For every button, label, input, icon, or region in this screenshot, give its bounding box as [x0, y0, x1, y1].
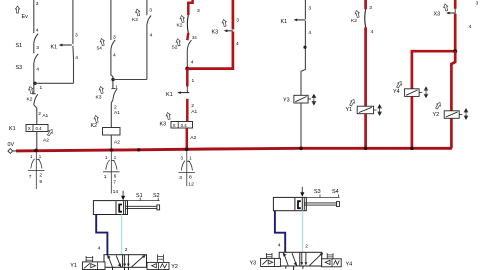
- svg-text:34: 34: [192, 35, 197, 40]
- wire: [36, 132, 38, 151]
- svg-text:Ev: Ev: [22, 14, 29, 20]
- wire red to rail corner: [450, 118, 453, 148]
- valve solenoid Y4: [405, 89, 420, 97]
- svg-text:Y2: Y2: [433, 112, 440, 118]
- tube cyan cylinder1 to valve1: [121, 215, 123, 256]
- cylinder 2 position ruler: [306, 196, 339, 198]
- junction column 9: [453, 49, 457, 53]
- wire column 4 top energized: [188, 0, 192, 15]
- cylinder 1 piston: [115, 201, 117, 214]
- svg-text:8: 8: [189, 174, 192, 180]
- svg-text:4: 4: [469, 24, 472, 30]
- svg-text:1: 1: [39, 154, 42, 159]
- valve V2 body: [279, 252, 322, 266]
- svg-text:4: 4: [371, 29, 374, 35]
- node junction 1: [33, 82, 36, 85]
- node junction 2: [111, 78, 114, 81]
- svg-text:0V: 0V: [8, 142, 15, 148]
- svg-text:K2: K2: [27, 97, 33, 103]
- junction on rail K1: [34, 149, 38, 153]
- svg-text:S3: S3: [16, 65, 23, 71]
- junction on rail K2: [110, 148, 114, 152]
- wire red: [186, 69, 189, 87]
- wire: [146, 25, 148, 80]
- svg-text:0.4: 0.4: [181, 123, 188, 128]
- svg-text:1: 1: [40, 85, 43, 91]
- valve solenoid Y2: [444, 111, 459, 119]
- svg-text:14: 14: [113, 189, 119, 195]
- junction on rail K3: [185, 148, 189, 152]
- valve V2 manual override right: [326, 253, 328, 259]
- svg-text:A2: A2: [190, 135, 196, 141]
- svg-text:K2: K2: [177, 23, 183, 29]
- cylinder 2 piston rod: [304, 202, 336, 204]
- valve V1 body: [104, 255, 147, 268]
- svg-text:2: 2: [125, 247, 128, 253]
- wire red elbow to junction col4: [187, 32, 233, 69]
- svg-text:4: 4: [191, 60, 194, 66]
- svg-text:K3: K3: [160, 122, 167, 128]
- svg-text:Y3: Y3: [283, 97, 290, 103]
- wire column 1: [33, 0, 35, 33]
- wire column 3: [110, 0, 112, 40]
- contact mirror table K2: [103, 151, 120, 194]
- contact K1 closed: [61, 44, 72, 46]
- svg-text:3: 3: [181, 156, 184, 161]
- svg-text:4: 4: [308, 30, 311, 36]
- svg-text:K1: K1: [166, 92, 173, 98]
- valve V1 manual override right: [157, 254, 159, 261]
- tube cyan cylinder2 to valve2: [302, 211, 304, 253]
- svg-text:2: 2: [38, 111, 41, 117]
- svg-text:0.4: 0.4: [36, 126, 43, 131]
- svg-text:Y4: Y4: [393, 89, 400, 95]
- node on column 6: [303, 46, 306, 49]
- wire: [110, 135, 112, 150]
- svg-text:2: 2: [39, 172, 42, 178]
- valve V1 port stubs: [112, 267, 114, 270]
- contact K2 latch: [147, 16, 151, 26]
- svg-text:7: 7: [29, 174, 32, 180]
- svg-text:1: 1: [189, 156, 192, 161]
- contact K1 closed: [295, 19, 305, 21]
- contact mirror table K1: [28, 152, 45, 190]
- wire column 9 Y2 energized: [454, 0, 457, 9]
- wire red jog: [451, 51, 455, 111]
- cylinder 2 piston: [294, 198, 296, 210]
- contact S1: [34, 34, 38, 44]
- relay coil K3 timer: [171, 122, 193, 129]
- valve V2 right box arrows: [301, 253, 303, 263]
- wire red: [454, 14, 457, 51]
- svg-text:K1: K1: [281, 19, 288, 25]
- wire red: [411, 96, 414, 148]
- contact Ev: [15, 6, 19, 13]
- contact K2 closed: [186, 15, 189, 33]
- svg-text:Y3: Y3: [250, 260, 257, 266]
- contact K3 closed: [226, 30, 233, 32]
- wire column 8 Y4 energized: [412, 51, 455, 89]
- wire latch branch 2: [113, 79, 147, 81]
- valve V1 pilot solenoid Y1: [82, 262, 105, 270]
- wire: [33, 43, 35, 53]
- relay coil K2: [103, 128, 121, 136]
- svg-text:2: 2: [305, 243, 308, 249]
- svg-text:9: 9: [39, 179, 42, 185]
- junction on rail x139: [137, 148, 140, 151]
- svg-text:K2: K2: [132, 17, 138, 23]
- junction on rail Y4: [410, 147, 414, 151]
- valve V2 left box arrows: [284, 253, 289, 266]
- svg-text:3: 3: [236, 18, 239, 24]
- svg-text:3: 3: [36, 45, 39, 51]
- contact K3 closed top right: [448, 12, 455, 14]
- svg-text:7: 7: [113, 180, 116, 186]
- wire red: [187, 33, 188, 40]
- svg-text:S4: S4: [332, 189, 339, 195]
- junction column 4: [185, 67, 189, 71]
- svg-text:K1: K1: [9, 126, 16, 132]
- valve V2 port stubs: [285, 266, 287, 269]
- cylinder 1 body: [93, 201, 127, 215]
- svg-text:6: 6: [114, 174, 117, 180]
- valve V1 left box arrows: [108, 255, 113, 267]
- svg-text:Y2: Y2: [171, 264, 178, 270]
- svg-text:4: 4: [236, 41, 239, 47]
- svg-text:1: 1: [104, 174, 107, 180]
- tube navy cylinder1 to valve1: [96, 215, 107, 256]
- svg-text:X: X: [28, 126, 31, 131]
- wire: [300, 103, 302, 149]
- wire column 3b latch K2: [146, 0, 148, 15]
- contact S3: [34, 54, 38, 64]
- wire column 6 Y3: [304, 0, 306, 19]
- valve solenoid Y1: [357, 106, 373, 114]
- svg-text:K2: K2: [351, 18, 357, 24]
- wire red: [364, 114, 367, 149]
- svg-text:1: 1: [114, 155, 117, 160]
- svg-text:4: 4: [36, 28, 39, 34]
- svg-text:A2: A2: [114, 140, 120, 146]
- svg-text:Y1: Y1: [70, 263, 77, 269]
- svg-text:S2: S2: [172, 45, 178, 51]
- contact mirror table K3: [179, 151, 196, 187]
- contact S2: [187, 40, 191, 49]
- svg-text:K1: K1: [51, 45, 58, 51]
- svg-text:X: X: [173, 123, 176, 128]
- svg-text:Y4: Y4: [346, 262, 353, 268]
- wire: [301, 21, 305, 96]
- svg-text:12: 12: [188, 181, 194, 187]
- svg-text:3: 3: [36, 1, 39, 7]
- contact K2 NC: [32, 93, 36, 95]
- svg-text:4: 4: [98, 246, 101, 252]
- svg-text:3: 3: [179, 175, 182, 181]
- svg-text:S1: S1: [16, 43, 23, 49]
- cylinder 2 body: [273, 197, 306, 210]
- wire red: [364, 27, 367, 106]
- junction on rail Y3: [299, 147, 303, 151]
- svg-text:4: 4: [278, 243, 281, 249]
- valve solenoid Y3: [294, 95, 308, 103]
- svg-text:X3: X3: [434, 12, 441, 18]
- valve V2 manual override left: [265, 253, 267, 258]
- wire: [111, 100, 113, 128]
- svg-text:K2: K2: [91, 123, 98, 129]
- svg-text:A1: A1: [114, 110, 120, 116]
- svg-text:A2: A2: [43, 138, 49, 144]
- junction on rail Y1: [364, 147, 368, 151]
- svg-text:3: 3: [476, 1, 479, 7]
- wire: [72, 46, 75, 84]
- cylinder 2 position marker: [300, 192, 304, 197]
- wire: [186, 50, 188, 69]
- valve V1 right box arrows: [124, 255, 126, 264]
- wire column 5 energized: [232, 0, 235, 30]
- svg-text:2: 2: [114, 105, 117, 111]
- wire column 7 Y1 energized: [364, 0, 367, 9]
- svg-text:2: 2: [191, 103, 194, 109]
- svg-text:S3: S3: [314, 189, 321, 195]
- valve V1 pilot solenoid Y2: [147, 262, 169, 269]
- svg-text:A1: A1: [191, 109, 197, 115]
- contact S4: [111, 40, 115, 50]
- svg-text:3: 3: [369, 5, 372, 11]
- valve V1 manual override left: [85, 256, 87, 262]
- svg-text:1: 1: [30, 154, 33, 159]
- wire red: [186, 99, 189, 122]
- svg-text:3: 3: [197, 8, 200, 14]
- relay coil K1 timer: [26, 125, 48, 132]
- wire red: [186, 128, 189, 150]
- wire latch branch 1: [35, 82, 74, 84]
- 0V power rail: [16, 148, 452, 151]
- wire: [111, 50, 113, 89]
- svg-text:4: 4: [150, 33, 153, 39]
- svg-text:4: 4: [113, 53, 116, 59]
- cylinder 1 piston rod: [126, 205, 157, 207]
- svg-text:K3: K3: [96, 95, 102, 101]
- svg-text:A1: A1: [42, 113, 48, 119]
- svg-text:4: 4: [36, 67, 39, 73]
- svg-text:S1: S1: [136, 193, 143, 199]
- contact K3 NC: [111, 88, 115, 90]
- wire: [33, 64, 35, 94]
- contact K1 closed: [186, 87, 188, 93]
- contact K2 closed: [364, 9, 367, 27]
- svg-text:S4: S4: [97, 46, 103, 51]
- svg-text:4: 4: [75, 55, 78, 61]
- 0V rail terminal: [8, 149, 13, 154]
- wire column 2 latch K1: [72, 0, 74, 44]
- svg-text:S2: S2: [153, 193, 160, 199]
- cylinder 1 position marker: [121, 196, 125, 201]
- svg-text:K3: K3: [212, 30, 219, 36]
- svg-text:3: 3: [308, 6, 311, 12]
- tube navy cylinder2 to valve2: [275, 211, 285, 253]
- wire: [34, 105, 37, 125]
- svg-text:1: 1: [192, 78, 195, 84]
- svg-text:1: 1: [105, 155, 108, 160]
- valve V2 pilot solenoid Y3: [261, 258, 281, 266]
- svg-text:3: 3: [149, 8, 152, 14]
- cylinder 1 position ruler: [128, 200, 160, 202]
- svg-text:Y1: Y1: [346, 107, 353, 113]
- valve V2 pilot solenoid Y4: [322, 259, 342, 267]
- svg-text:3: 3: [75, 32, 78, 38]
- svg-text:3: 3: [113, 35, 116, 41]
